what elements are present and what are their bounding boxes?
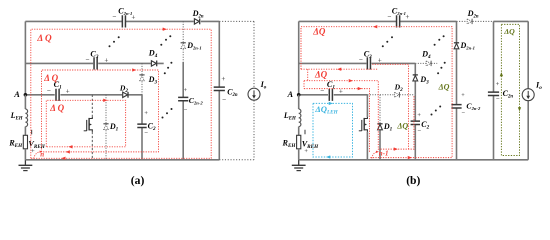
ellipsis dots group3 (b) <box>437 72 439 74</box>
capacitor C2n branch wire (b) <box>493 21 495 159</box>
svg-text:ΔQ: ΔQ <box>314 69 328 79</box>
svg-text:ΔQ: ΔQ <box>503 27 515 36</box>
diode D3 branch dotted wire (a) <box>141 63 143 94</box>
switch MOSFET branch solid wire (b) <box>366 95 368 160</box>
charge loop red path row2 (b) <box>301 68 378 80</box>
svg-text:ΔQ: ΔQ <box>312 27 326 37</box>
diode D2 (a) <box>119 84 128 98</box>
svg-text:+: + <box>31 148 35 155</box>
svg-text:+: + <box>104 56 108 64</box>
figure (b): wire top rail dotted part with D2n <box>457 20 494 22</box>
wire row3 node A to C2 branch (a) <box>25 94 142 96</box>
svg-text:+: + <box>184 87 188 94</box>
svg-text:+: + <box>496 81 500 88</box>
figure (b): wire top rail solid part <box>299 20 457 22</box>
svg-text:A: A <box>287 90 294 99</box>
wire bottom rail (a) <box>25 159 219 161</box>
svg-text:+: + <box>66 87 70 95</box>
wire right rail with output cap (a) <box>218 21 220 159</box>
ellipsis dots group4 (a) <box>162 117 164 119</box>
capacitor C3 (a) <box>85 49 108 69</box>
svg-text:−: − <box>112 13 116 21</box>
loop count label n (a) <box>34 151 45 159</box>
voltage label VREH (a) <box>28 130 45 155</box>
svg-text:+: + <box>378 56 382 64</box>
capacitor C1 (a) <box>47 80 70 101</box>
ellipsis dots group3 (a) <box>164 72 166 74</box>
svg-text:Δ Q: Δ Q <box>49 103 64 113</box>
charge loop olive rect right (b) <box>500 24 521 155</box>
svg-text:+: + <box>131 13 135 21</box>
charge loop 1 red dashed rect (a) <box>31 28 211 160</box>
ellipsis dots group2 (b) <box>434 44 436 46</box>
inductor LEH (a) <box>10 95 28 127</box>
diode D2n (a) <box>192 9 204 24</box>
charge loop red path mid (b) <box>304 69 414 151</box>
svg-text:−: − <box>144 129 148 136</box>
svg-text:+: + <box>144 110 148 117</box>
wire row3 (b) <box>299 94 368 96</box>
ground (a) <box>19 160 33 171</box>
diode D2 (b) dotted/off <box>394 83 403 98</box>
diode D2n-1 (a) <box>181 41 202 51</box>
svg-text:−: − <box>222 96 226 104</box>
diode D1 branch dotted wire (a) <box>105 95 107 160</box>
capacitor C2 branch wire (b) <box>414 95 416 160</box>
capacitor C2 branch wire (a) <box>141 95 143 160</box>
svg-text:−: − <box>461 110 465 117</box>
capacitor C2n-2 branch wire (a) <box>182 62 184 160</box>
diode D3 (b) solid/on <box>413 75 429 86</box>
diode D2n-1 branch wire (b) <box>456 21 458 159</box>
diode D3 branch wire (b) <box>414 63 416 94</box>
svg-text:+: + <box>417 112 421 119</box>
svg-text:(b): (b) <box>406 174 420 187</box>
wire right rail (b) <box>527 21 529 159</box>
current source Io (b) <box>522 80 542 100</box>
svg-text:−: − <box>184 107 188 114</box>
svg-text:−: − <box>47 87 51 95</box>
ground (b) <box>292 160 306 171</box>
capacitor C2n-2 (a) <box>178 87 203 114</box>
figure (a): wire top rail <box>25 20 219 22</box>
svg-text:(a): (a) <box>131 174 145 187</box>
diode D2n (b) dotted/off <box>467 9 479 24</box>
inductor LEH (b) <box>283 95 301 127</box>
load branch dotted wires (a) <box>219 21 254 159</box>
ellipsis dots group4 (b) <box>431 114 433 116</box>
node A (a) <box>13 90 27 99</box>
ellipsis dots group1 (b) <box>382 45 384 47</box>
wire row2 (b) <box>299 62 416 64</box>
voltage label VREH (b) <box>302 130 319 155</box>
svg-text:ΔQ: ΔQ <box>396 122 408 131</box>
wire row2 dotted continuation with D4 (b) <box>415 62 437 64</box>
diode D2n-1 (b) solid/on <box>454 41 475 51</box>
svg-text:−: − <box>496 96 500 103</box>
svg-text:Δ Q: Δ Q <box>36 33 52 43</box>
svg-text:−: − <box>387 13 391 21</box>
ellipsis dots group2 (a) <box>160 44 162 46</box>
svg-text:A: A <box>13 90 20 99</box>
capacitor C3 (b) <box>359 49 382 69</box>
wire row3 dotted continuation with D2 (b) <box>367 94 415 96</box>
wire bottom rail (b) <box>299 159 529 161</box>
svg-text:−: − <box>359 56 363 64</box>
capacitor C2n-1 (a) <box>112 7 135 28</box>
charge loop cyan dQLEH rect (b) <box>313 102 353 159</box>
svg-text:+: + <box>304 148 308 155</box>
charge loop outer red path (b) <box>301 25 452 159</box>
node A (b) <box>287 90 301 99</box>
capacitor C2n (a) <box>214 75 238 104</box>
diode D2n-1 branch dotted wire (a) <box>182 21 184 62</box>
figure (b): top rail right solid segment <box>494 20 529 22</box>
transistor MOSFET (a) <box>84 117 93 132</box>
capacitor C2n-1 (b) <box>387 7 409 28</box>
svg-text:n-1: n-1 <box>379 150 389 158</box>
wire left rail (b) <box>298 21 300 94</box>
diode D4 (a) <box>148 49 158 67</box>
svg-text:−: − <box>417 128 421 135</box>
charge loop red path right (b) <box>372 64 408 149</box>
svg-text:ΔQ: ΔQ <box>438 83 450 92</box>
resistor REH (a) <box>8 127 27 160</box>
svg-text:+: + <box>221 75 225 83</box>
wire row2 (a) <box>25 62 163 64</box>
switch MOSFET branch (a) dashed wire <box>91 95 93 160</box>
diode D1 (b) solid/on <box>377 122 392 133</box>
capacitor C1 (b) <box>320 80 343 101</box>
charge loop 3 red dashed rect (a) <box>46 99 125 149</box>
diode D3 (a) <box>139 75 157 86</box>
diode D1 branch wire (b) <box>379 95 381 124</box>
capacitor C2n-2 (b) <box>451 92 481 117</box>
svg-text:+: + <box>405 13 409 21</box>
svg-text:n: n <box>40 151 44 159</box>
resistor REH (b) <box>282 127 301 160</box>
svg-text:+: + <box>461 92 465 99</box>
charge loop 2 red dashed rect (a) <box>42 68 159 153</box>
charge loop red path C1 (b) <box>304 81 370 152</box>
diode D1 (a) <box>103 122 118 133</box>
capacitor C2n (b) <box>488 81 513 103</box>
capacitor C2 (a) <box>137 110 156 137</box>
svg-text:−: − <box>85 56 89 64</box>
loop count label n-1 (b) <box>372 150 389 159</box>
ellipsis dots group1 (a) <box>109 45 111 47</box>
transistor MOSFET (b) <box>359 117 368 132</box>
svg-text:Δ Q: Δ Q <box>43 73 58 83</box>
diode D4 (b) dotted/off <box>421 50 431 67</box>
wire left rail (a) <box>24 21 26 94</box>
current source Io (a) <box>248 80 267 100</box>
capacitor C2 (b) <box>411 112 430 135</box>
